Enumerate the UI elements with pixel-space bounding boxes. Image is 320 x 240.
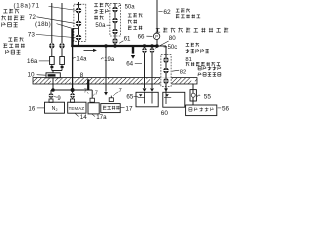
valve (50a mid) [112,18,118,24]
label 7 (mid) [93,90,98,96]
svg-text:2: 2 [56,108,58,112]
node 62/main [156,45,159,48]
raw material tank 14 (TEMAZ) [68,102,86,113]
gas introduce part 10 [46,73,60,78]
leader 10 [37,74,46,77]
valve on 64 [142,48,147,53]
valve below 50a box [112,38,118,44]
bold stub into wall [87,79,89,90]
main supply pipe (bold) [71,45,157,47]
bold supply elbow [73,28,79,47]
wire join of 18a/18b [52,71,62,73]
valve (50a top) [112,7,118,13]
pipe 18a [51,3,53,57]
label 1st material supply valve [1,9,24,27]
coupling 7 on TEMAZ tank [71,99,75,102]
pipe 18b [61,3,63,57]
coupling 7 on octane tank [109,96,113,102]
pipe 19a [105,46,107,92]
valve 73 [76,35,82,41]
arrow into tank 65 (2) [150,88,154,91]
recovery tank 65 [136,92,158,107]
dashed box around valves [74,4,86,41]
svg-text:7: 7 [84,88,87,94]
svg-text:65: 65 [126,93,133,100]
recovery tank 60 [163,92,185,107]
valve 9 (N2) [49,93,54,98]
bold down arrow [131,47,135,59]
node 64/main [143,45,146,48]
svg-text:50c: 50c [168,45,178,51]
node junction 14a/manifold [71,88,74,91]
svg-text:80: 80 [169,35,176,42]
arrow into tank 65 [143,88,147,91]
arrow into tank 60 [164,88,168,91]
label 19a [101,57,115,63]
wire N2 drop [50,90,52,99]
svg-text:14: 14 [80,114,87,120]
label 14 [75,114,87,122]
label 1st deposit discharge valve 80 [155,28,228,49]
node on manifold [52,89,55,92]
valve 71 [76,8,82,14]
svg-text:50a: 50a [95,23,106,29]
svg-text:66: 66 [138,33,145,40]
valve (50a bottom) [112,29,118,35]
leader 71 [49,6,77,10]
pipe with valve 80 [151,46,153,88]
node 19a/main [105,45,108,48]
flow arrow right [84,49,97,52]
dip tube 64 [144,92,146,103]
svg-text:TEMAZ: TEMAZ [69,106,85,111]
flow controller 16a (left) [50,57,55,71]
pipe 61 riser [114,3,116,46]
label 14a [73,57,87,63]
label 16 [28,105,44,112]
vacuum pump 56 [186,105,217,116]
svg-text:61: 61 [124,36,131,43]
vacuum line [192,84,194,105]
valve on 18a [49,43,55,49]
svg-text:55: 55 [204,94,212,101]
label 7 (left) [84,88,89,94]
wire 10 to manifold [52,78,54,90]
label 56 [218,105,230,112]
svg-text:7: 7 [95,90,98,96]
svg-text:19a: 19a [104,57,115,63]
pipe 14a riser [78,2,80,46]
svg-text:60: 60 [161,110,169,117]
label 65 [126,93,138,100]
flow controller 16a (right) [60,57,65,71]
valve (50c top) [163,57,169,63]
label 1st material discharge valve [3,37,24,54]
label 1st material discharge pipe 61 [119,13,142,43]
leader 73 [36,34,76,37]
dashed box 50a [110,3,121,36]
arrow into solvent tank [104,92,108,95]
label 81 + valve text [185,57,220,66]
node 61/main [114,45,117,48]
node 80/main [151,45,154,48]
coupling on N2 tank [49,99,53,102]
svg-text:81: 81 [185,57,191,63]
label 55 [197,94,211,101]
label 1st bubble removal 50a [94,3,110,29]
svg-text:10: 10 [28,72,36,79]
trap 55 [190,90,196,101]
label 9 [54,96,62,102]
svg-text:(18b): (18b) [35,21,51,28]
solvent tank 17 (octane) [101,104,120,113]
svg-text:16a: 16a [27,58,38,65]
pipe 14a lower [72,46,74,90]
svg-text:7: 7 [119,88,122,94]
label 17 [121,105,133,112]
svg-text:82: 82 [180,70,186,76]
valve on 18b [59,43,65,49]
label 50c + 2nd bubble removal [164,43,209,53]
svg-text:50a: 50a [125,5,136,11]
dip tube 80 [151,92,153,103]
label 62 + 2nd material discharge pipe [158,8,200,18]
leader 18b [57,24,72,29]
label 82 + 2nd deposit discharge valve [172,66,221,76]
svg-text:62: 62 [163,9,171,16]
pipe 62 [156,0,158,46]
label 17a [92,114,107,121]
svg-text:16: 16 [28,105,35,112]
pipe 64 [144,46,146,88]
label 50a top [118,5,135,11]
manifold wire below wall [51,89,89,91]
label 66 [138,33,153,40]
pump 17a [88,103,99,114]
dip tube 50c [165,92,167,104]
wire to pump 17a [89,90,93,98]
N2 source tank 16 [45,102,65,113]
valve 82 [163,78,169,84]
valve handle tick [76,4,80,6]
coupling 7 on 17a [90,98,94,102]
svg-text:17: 17 [125,105,133,112]
svg-text:8: 8 [80,72,84,79]
valve 72 [76,21,82,27]
valve 81 [163,68,169,74]
label 7 (right) [113,88,122,96]
valve 80 [150,48,155,53]
svg-text:56: 56 [222,105,230,112]
svg-text:P: P [155,34,158,39]
valve 9 (TEMAZ) [70,93,75,98]
wire main to 50c [158,46,166,92]
svg-text:(18a)71: (18a)71 [14,3,40,10]
label 64 [126,60,142,67]
svg-text:73: 73 [28,32,36,39]
svg-text:17a: 17a [96,114,107,120]
svg-text:14a: 14a [76,57,87,63]
pressure gauge 66 [153,33,159,39]
leader 16a [39,60,50,62]
leader 72 [37,17,75,24]
dashed box 50c [161,55,171,87]
wire TEMAZ drop [72,90,74,99]
svg-text:64: 64 [126,60,133,67]
